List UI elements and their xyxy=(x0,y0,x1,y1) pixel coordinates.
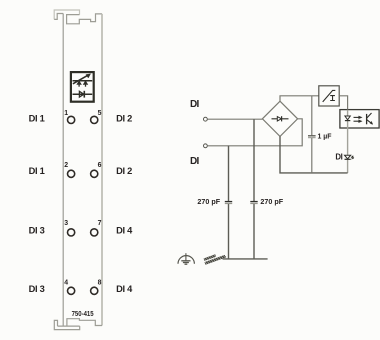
bridge rectifier diode symbol xyxy=(272,116,289,121)
wire capacitor C2 branch xyxy=(253,119,255,259)
svg-text:750-415: 750-415 xyxy=(72,309,95,318)
optocoupler light arrows xyxy=(354,116,363,123)
module bottom profile xyxy=(54,319,102,330)
optocoupler LED xyxy=(345,116,350,121)
optocoupler phototransistor xyxy=(367,113,373,124)
svg-text:DI 3: DI 3 xyxy=(29,284,45,294)
LED indicator symbol (dual LED with arrow) xyxy=(73,74,93,87)
svg-text:2: 2 xyxy=(64,162,68,169)
svg-text:DI: DI xyxy=(190,156,200,167)
diode symbol in indicator box xyxy=(73,91,93,98)
module top profile steps xyxy=(54,14,102,24)
terminal contact 7 xyxy=(91,229,98,236)
terminal contact 5 xyxy=(91,116,98,123)
optocoupler box xyxy=(340,110,379,128)
wire capacitor C1 branch xyxy=(228,146,230,259)
module body left edge xyxy=(62,14,64,327)
svg-text:DI 4: DI 4 xyxy=(116,226,133,236)
svg-text:1 µF: 1 µF xyxy=(318,132,332,141)
svg-text:7: 7 xyxy=(98,220,102,227)
wire filter to optocoupler xyxy=(339,96,347,110)
svg-text:DI: DI xyxy=(190,99,200,110)
wire 1uF branch xyxy=(311,96,313,173)
terminal contact 3 xyxy=(68,229,75,236)
capacitor C1 270pF plates xyxy=(225,202,232,204)
terminal DI lower xyxy=(204,144,208,148)
wire DC return rail xyxy=(280,136,348,173)
wire bridge top to filter block xyxy=(280,96,319,101)
svg-text:270 pF: 270 pF xyxy=(197,197,220,206)
wire optocoupler return xyxy=(347,128,349,173)
svg-text:8: 8 xyxy=(98,280,102,287)
terminal contact 1 xyxy=(68,116,75,123)
filter block symbol xyxy=(323,90,336,102)
svg-text:1: 1 xyxy=(64,110,68,117)
status LED DI on return wire xyxy=(345,155,355,159)
optocoupler internal wire xyxy=(347,110,349,128)
capacitor 1 uF plates xyxy=(308,136,316,138)
terminal contact 4 xyxy=(68,287,75,294)
terminal contact 8 xyxy=(91,287,98,294)
svg-text:270 pF: 270 pF xyxy=(260,197,283,206)
terminal contact 6 xyxy=(91,170,98,177)
DIN rail contact symbol xyxy=(204,254,227,264)
svg-text:DI 4: DI 4 xyxy=(116,284,133,294)
svg-text:DI: DI xyxy=(335,153,342,162)
svg-text:DI 1: DI 1 xyxy=(29,166,45,176)
wire W1 upper DI to bridge xyxy=(207,118,262,120)
terminal contact 2 xyxy=(68,170,75,177)
terminal DI upper xyxy=(204,117,208,121)
svg-text:DI 1: DI 1 xyxy=(29,114,45,124)
ground rail xyxy=(223,258,268,260)
wire W2 lower DI to bridge right xyxy=(207,119,302,146)
module top mounting profile (light bar) xyxy=(54,10,79,19)
module body right edge xyxy=(101,14,103,326)
capacitor C2 270pF plates xyxy=(250,202,257,204)
filter block /I xyxy=(319,86,339,106)
svg-text:3: 3 xyxy=(64,220,68,227)
svg-text:DI 2: DI 2 xyxy=(116,166,132,176)
bridge rectifier BR1 diamond xyxy=(262,101,297,136)
svg-text:6: 6 xyxy=(98,162,102,169)
LED indicator box xyxy=(71,72,94,102)
earth ground symbol xyxy=(178,253,194,264)
svg-text:DI 2: DI 2 xyxy=(116,114,132,124)
svg-text:4: 4 xyxy=(64,280,68,287)
svg-text:5: 5 xyxy=(98,110,102,117)
svg-text:DI 3: DI 3 xyxy=(29,226,45,236)
